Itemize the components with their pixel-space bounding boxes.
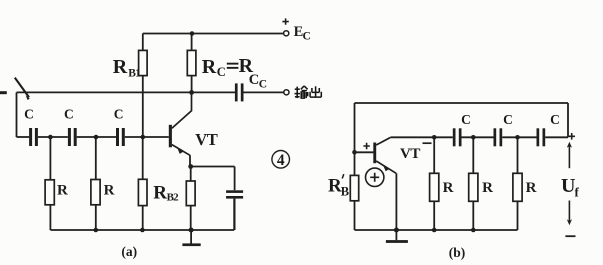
svg-text:R: R bbox=[113, 56, 128, 78]
svg-text:R: R bbox=[104, 183, 115, 199]
svg-text:R: R bbox=[526, 180, 537, 196]
svg-text:R: R bbox=[482, 180, 493, 196]
svg-text:U: U bbox=[561, 175, 575, 197]
svg-text:B1: B1 bbox=[128, 67, 141, 79]
svg-text:C: C bbox=[259, 78, 267, 90]
svg-text:C: C bbox=[461, 112, 471, 127]
svg-text:f: f bbox=[575, 184, 580, 199]
svg-text:C: C bbox=[503, 112, 513, 127]
svg-text:R: R bbox=[57, 183, 68, 199]
svg-text:C: C bbox=[217, 65, 226, 79]
svg-text:C: C bbox=[114, 106, 124, 121]
svg-text:C: C bbox=[249, 72, 259, 88]
svg-text:B: B bbox=[341, 184, 349, 198]
svg-text:VT: VT bbox=[400, 146, 420, 162]
svg-text:R: R bbox=[443, 180, 454, 196]
svg-text:C: C bbox=[64, 106, 74, 121]
svg-text:(a): (a) bbox=[121, 244, 137, 259]
svg-text:VT: VT bbox=[195, 130, 217, 149]
svg-text:R: R bbox=[202, 56, 217, 78]
svg-text:C: C bbox=[303, 30, 311, 42]
svg-text:B2: B2 bbox=[167, 191, 180, 203]
svg-text:4: 4 bbox=[277, 152, 285, 169]
svg-text:(b): (b) bbox=[449, 245, 466, 260]
svg-text:R: R bbox=[153, 182, 167, 203]
svg-text:C: C bbox=[24, 106, 34, 121]
svg-text:C: C bbox=[550, 112, 560, 127]
